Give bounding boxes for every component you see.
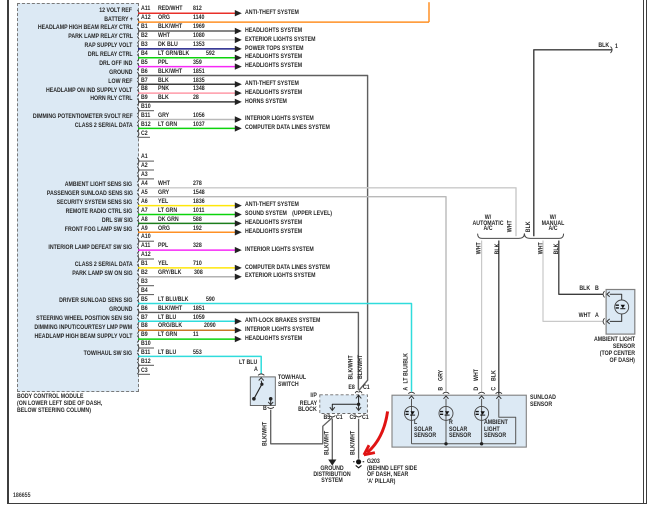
pin label E8 [349,385,355,392]
pin label B5 [323,415,330,422]
connector C3 label [141,368,148,375]
L solar sensor photodiode [411,399,413,444]
sunload bus junction ambient [480,442,483,445]
node C2 pin B10 row [141,341,151,348]
pin C1-A11 connector [137,10,139,17]
switch blade tow/haul [260,381,263,385]
wire C2-B1 YEL 710 [138,267,235,269]
relay block bottom arrow B5/C1 [330,407,335,410]
pin C1-B11 connector [137,116,139,123]
pin C2-B7 connector [137,318,139,325]
node C2 pin B12 row [141,359,151,366]
wire C1-B5 PPL 359 [138,66,235,68]
sunload sensor pin D [478,392,484,393]
wire C2-B8 ORG/BLK 2090 [138,329,235,331]
arrow to HEADLIGHTS SYSTEM [235,63,242,69]
arrow to HEADLIGHTS SYSTEM [235,336,242,342]
wire label BLK pin B [580,286,591,293]
pin C2-B1 connector [137,265,139,272]
pin C2-B9 connector [137,336,139,343]
pin C2-B2 connector [137,273,139,280]
arrow to POWER TOPS SYSTEM [235,46,242,52]
R solar sensor photodiode [445,399,447,444]
wire C2-A8 DK GRN 588 [138,222,235,224]
splice brace W/ AUTOMATIC vs MANUAL A/C [478,233,564,238]
arrow to COMPUTER DATA LINES SYSTEM [235,125,242,131]
label BODY CONTROL MODULE caption [17,393,102,414]
pin C2-A2 connector [137,167,139,174]
pin C1-A12 connector [137,19,139,26]
pin C2-A1 underline [138,160,154,162]
pin B label tow/haul switch [263,406,267,413]
node C2 pin A9 row [141,226,148,233]
node C1 pin B8 row [141,86,148,93]
arrow to HEADLIGHTS SYSTEM [235,220,242,226]
pin C2-B3 connector [137,282,139,289]
pin C2-B6 connector [137,309,139,316]
pin C1-B7 connector [137,81,139,88]
svg-text:BLK/WHT: BLK/WHT [262,421,269,446]
wire BLK to terminal 1 [534,50,612,236]
wire C1-B3 DK BLU 1353 [138,48,235,50]
pin C1-B3 connector [137,46,139,53]
arrow to INTERIOR LIGHTS SYSTEM [235,116,242,122]
node C2 pin B8 row [141,323,148,330]
ambient light sensor pin B [603,291,604,297]
terminal 1 connector arc [611,47,613,53]
pin C2-B4 connector [137,291,139,298]
component AMBIENT LIGHT SENSOR box [606,290,635,335]
node C1 pin B12 row [141,122,151,129]
node C2 pin A11 row [141,243,150,250]
wire label LT BLU [239,360,257,367]
svg-text:BLK/WHT: BLK/WHT [350,430,357,455]
pin A label tow/haul switch [254,367,258,374]
arrow to INTERIOR LIGHTS SYSTEM [235,327,242,333]
pin label C1 [336,415,343,422]
svg-text:BLK/WHT: BLK/WHT [324,430,331,455]
pin C1-B1 connector [137,28,139,35]
label W/ MANUAL A/C [503,215,601,233]
component SUNLOAD SENSOR box [392,395,526,447]
wire BLK w/automatic A/C to sunload pin C [498,241,500,395]
pin C2-A8 connector [137,220,139,227]
wire B5 LT BLU/BLK 590 to sunload sensor pin A [138,304,412,392]
node C2 pin A7 row [141,208,148,215]
wire C2-B2 GRY/BLK 308 [138,276,235,278]
arrow to HEADLIGHTS SYSTEM [235,229,242,235]
node C1 pin B4 row [141,51,148,58]
pin C2-A10 underline [138,240,154,242]
wire C2-A7 LT GRN 1011 [138,214,235,216]
node C2 pin A4 row [141,181,148,188]
svg-text:LT BLU/BLK: LT BLU/BLK [403,352,410,383]
arrow to HORNS SYSTEM [235,99,242,105]
node C1 pin A11 row [141,6,150,13]
sunload internal ground bus [412,399,516,444]
arrow to HEADLIGHTS SYSTEM [235,28,242,34]
node C1 pin B3 row [141,42,148,49]
node C2 pin B7 row [141,315,148,322]
node C2 pin B4 row [141,288,148,295]
node C1 pin B7 row [141,78,148,85]
tow/haul switch pin B [268,407,274,408]
wire C2-A6 YEL 1836 [138,205,235,207]
wire label BLK [599,43,610,50]
pin C1-B5 connector [137,63,139,70]
pin C2-B11 connector [137,353,139,360]
pin C1-B8 connector [137,90,139,97]
node C1 pin B11 row [141,113,150,120]
arrow to EXTERIOR LIGHTS SYSTEM [235,274,242,280]
component I/P RELAY BLOCK box [320,395,368,414]
pin label C1 [363,385,370,392]
relay block pin E8/C1 arcs [355,391,362,393]
pin C1-B6 connector [137,72,139,79]
svg-text:BLK: BLK [491,370,498,381]
wire A5 GRY 1548 to sunload sensor pin B [138,197,446,392]
pin C1-B9 connector [137,99,139,106]
label AMBIENT LIGHT SENSOR (sunload) [484,420,508,427]
svg-text:GRY: GRY [438,370,445,381]
node C2 pin A2 row [141,163,148,170]
node C2 pin A8 row [141,217,148,224]
arrow to INTERIOR LIGHTS SYSTEM [235,247,242,253]
svg-text:BLK: BLK [554,243,561,254]
wire BLK/WHT tow/haul switch ground [271,410,333,444]
label AMBIENT LIGHT SENSOR (top of dash) [594,337,635,344]
wire BLK/WHT to ground distribution [331,419,333,460]
pin C2-B12 underline [138,364,154,366]
arrow to ANTI-THEFT SYSTEM [235,202,242,208]
arrow to COMPUTER DATA LINES SYSTEM [235,265,242,271]
node C2 pin B2 row [141,270,148,277]
wire BLK/WHT to G203 [358,419,360,459]
pin C2-B10 connector [137,345,139,352]
relay block pin B5/C1 arc [329,415,335,417]
wire B11 LT BLU 553 to tow/haul switch pin A [138,356,261,373]
wire C2-B7 LT BLU 1059 [138,320,235,322]
node C1 pin B6 row [141,69,148,76]
arrow to ANTI-THEFT SYSTEM [235,10,242,16]
wire C2-A9 ORG 192 [138,231,235,233]
node C2 pin B1 row [141,261,148,268]
node C2 pin B5 row [141,297,148,304]
relay block internal junction [357,403,360,406]
svg-text:B: B [438,387,445,391]
red annotation arrow [367,411,387,452]
pin C2-B8 connector [137,327,139,334]
pin C2-B12 connector [137,362,139,369]
node C2 pin B9 row [141,332,148,339]
wire C2-B6 BLK/WHT 1851 to I/P relay block [138,312,358,389]
label W/ AUTOMATIC A/C [438,215,536,233]
pin C1-B2 connector [137,37,139,44]
pin C2-A1 connector [137,158,139,165]
pin C2-B5 connector [137,300,139,307]
wire label WHT pin A [579,313,591,320]
node C2 pin A6 row [141,199,148,206]
pin C1-B4 connector [137,54,139,61]
relay block bottom arrow C5/C1 [356,407,361,410]
terminal 1 label [615,44,618,51]
arrow to HEADLIGHTS SYSTEM [235,90,242,96]
page frame borders [7,0,9,504]
wire WHT w/automatic A/C to sunload pin D [481,241,483,392]
label R SOLAR SENSOR [449,420,453,427]
wire A12 ORG vertical to top edge [428,2,430,22]
pin C2-A2 underline [138,169,154,171]
wire WHT w/manual A/C to ambient sensor pin A [543,241,603,322]
wire BLK w/manual A/C to ambient sensor pin B [559,241,604,295]
node C1 pin B5 row [141,60,148,67]
wire C1-B1 BLK/WHT 1969 [138,30,235,32]
arrow to EXTERIOR LIGHTS SYSTEM [235,37,242,43]
pin C2-A10 connector [137,238,139,245]
node C1 pin B2 row [141,33,148,40]
pin C2-B3 underline [138,285,154,287]
connector C2 label [141,131,148,138]
wire C1-B12 LT GRN 1037 [138,127,235,129]
pin C1-B12 connector [137,125,139,132]
wire C1-B6 BLK/WHT 1851 to I/P relay block [138,76,368,391]
wire C2-B9 LT GRN 11 [138,338,235,340]
wire C1-B2 WHT 1080 [138,39,235,41]
wire A4 WHT 278 to A/C splice [138,188,516,236]
pin label C5 [350,415,357,422]
svg-text:WHT: WHT [476,242,483,254]
pin C2-A6 connector [137,202,139,209]
sunload sensor pin B [443,392,449,393]
svg-text:WHT: WHT [474,369,481,381]
wire C1-B4 LT GRN/BLK 592 [138,57,235,59]
tow/haul switch contact B [269,397,273,401]
svg-text:A: A [403,386,410,390]
pin C2-A12 connector [137,256,139,263]
label G203 [367,459,380,466]
body control module BCM box [17,3,140,392]
node C2 pin A10 row [141,234,151,241]
label GROUND DISTRIBUTION SYSTEM [283,466,381,485]
label L SOLAR SENSOR [414,420,417,427]
pin C2-A3 underline [138,178,154,180]
svg-text:D: D [474,387,481,391]
wire C2-A11 PPL 328 [138,249,235,251]
wire C1-B7 BLK 1835 [138,83,235,85]
wire A12 ORG 1140 horizontal [138,21,429,23]
node C2 pin A5 row [141,190,148,197]
pin C2-A7 connector [137,211,139,218]
wire C1-B11 GRY 1056 [138,119,235,121]
pin C1-B10 connector [137,107,139,114]
relay block internal ground bus [358,395,360,410]
pin C2-A11 connector [137,247,139,254]
component TOW/HAUL SWITCH box [250,377,275,406]
node C2 pin A3 row [141,172,148,179]
svg-text:BLK/WHT: BLK/WHT [348,355,355,380]
wire C1-B8 PNK 1348 [138,92,235,94]
arrow to ANTI-THEFT SYSTEM [235,81,242,87]
pin label C1 [362,415,369,422]
label TOW/HAUL SWITCH [278,375,306,382]
svg-text:WHT: WHT [538,242,545,254]
pin C2-B4 underline [138,294,154,296]
node C2 pin B3 row [141,279,148,286]
node C1 pin A12 row [141,15,151,22]
node C2 pin A1 row [141,154,148,161]
arrow to SOUND SYSTEM (UPPER LEVEL) [235,211,242,217]
pin C2-A3 connector [137,176,139,183]
sunload sensor pin A [408,392,414,393]
svg-text:BLK: BLK [494,243,501,254]
node C2 pin B11 row [141,350,150,357]
page number 186655 [13,493,30,500]
pin C1-B10 underline [138,110,154,112]
svg-text:C: C [491,386,498,390]
pin C2-A9 connector [137,229,139,236]
node C1 pin B1 row [141,24,148,31]
pin C2-A12 underline [138,258,154,260]
node C2 pin B6 row [141,306,148,313]
ambient light sensor photodiode (sunload) [481,399,483,444]
pin C2-B10 underline [138,347,154,349]
arrow to ANTI-LOCK BRAKES SYSTEM [235,318,242,324]
node C1 pin B9 row [141,95,148,102]
sunload sensor pin C [496,392,502,393]
pin C2-A4 connector [137,184,139,191]
ground G203 symbol [356,459,361,464]
relay block pin C5/C1 arc [356,415,362,417]
node C1 pin B10 row [141,104,151,111]
wire C1-A11 RED/WHT 812 [138,12,235,14]
node C2 pin A12 row [141,252,151,259]
tow/haul switch pin A [258,374,264,375]
ambient sensor internal wiring [610,294,622,300]
svg-text:BLK/WHT: BLK/WHT [358,354,365,379]
label SUNLOAD SENSOR [530,395,556,402]
pin C2-A5 connector [137,193,139,200]
sunload bus junction R [444,442,447,445]
arrow to HEADLIGHTS SYSTEM [235,55,242,61]
ambient light sensor pin A [603,318,604,324]
label I/P RELAY BLOCK [310,393,316,400]
wire C1-B9 BLK 28 [138,101,235,103]
